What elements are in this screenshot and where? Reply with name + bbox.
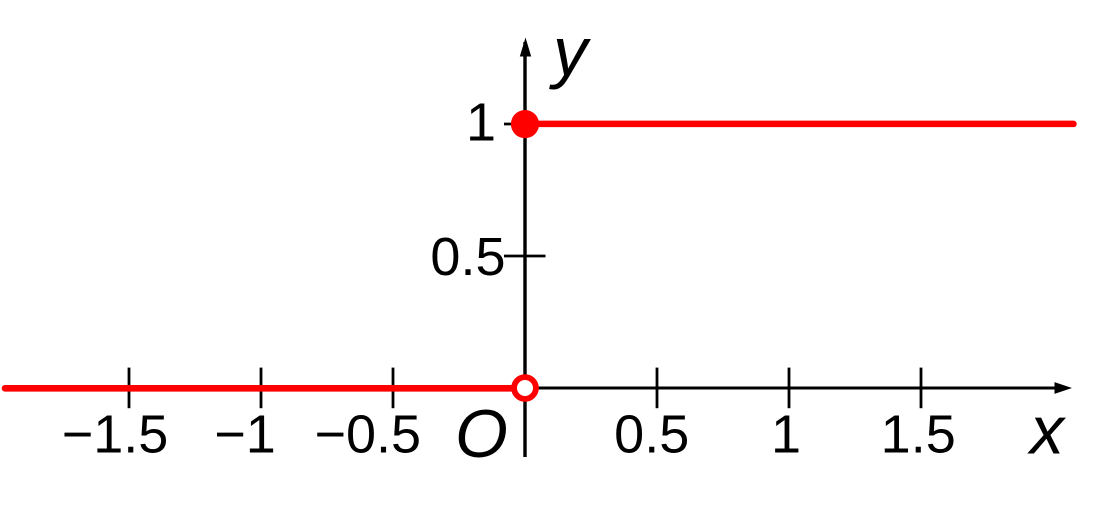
svg-text:−1: −1 [214, 405, 276, 465]
tick y=1 [504, 123, 546, 126]
x-axis arrowhead [1055, 382, 1073, 394]
red segment y=0 for x<0 [5, 385, 514, 392]
tick x=-1.5 [128, 368, 131, 409]
tick x=-0.5 [392, 368, 395, 409]
tick x=1 [788, 368, 791, 409]
svg-text:0.5: 0.5 [430, 227, 505, 287]
svg-text:1: 1 [466, 93, 496, 153]
svg-text:O: O [455, 396, 508, 472]
svg-text:1: 1 [771, 405, 801, 465]
svg-text:1.5: 1.5 [881, 405, 956, 465]
tick y=0.5 [504, 255, 546, 258]
x-axis line [2, 387, 1056, 390]
tick x=-1 [260, 368, 263, 409]
y-axis line [523, 42, 526, 457]
y-axis arrowhead [520, 38, 531, 57]
svg-text:−0.5: −0.5 [314, 405, 421, 465]
open circle at origin [514, 377, 536, 399]
svg-text:−1.5: −1.5 [62, 405, 169, 465]
tick x=1.5 [920, 368, 923, 409]
svg-text:x: x [1027, 393, 1066, 469]
svg-text:y: y [549, 13, 591, 90]
tick x=0.5 [656, 368, 659, 409]
svg-text:0.5: 0.5 [614, 405, 689, 465]
red segment y=1 for x>0 [525, 121, 1074, 128]
filled dot at (0,1) [511, 110, 539, 138]
